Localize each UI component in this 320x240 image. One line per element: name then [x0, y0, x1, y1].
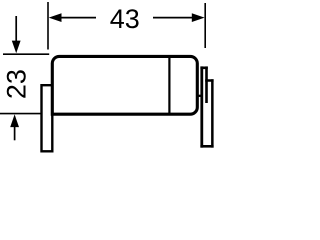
right tab outer edge L3 — [211, 79, 214, 147]
dimension 43: right extension line — [204, 3, 206, 48]
dimension 43: left arrowhead — [49, 13, 62, 22]
dimension 23: bottom extension tick — [0, 113, 41, 115]
dimension 43: left dimension line — [54, 17, 96, 19]
dimension 23: top arrowhead (pointing down) — [12, 41, 21, 54]
svg-text:43: 43 — [110, 4, 140, 34]
right tab step bar — [205, 79, 213, 82]
dimension 23: top extension tick — [3, 53, 49, 55]
cathode band — [168, 57, 170, 114]
right tab top bar — [200, 67, 207, 70]
right tab bottom bar — [200, 145, 213, 148]
dimension 23: bottom arrow shaft — [14, 125, 16, 140]
left solder tab — [42, 85, 53, 151]
svg-text:23: 23 — [1, 69, 31, 99]
component body (cell outline, rounded except bottom-left) — [52, 56, 197, 114]
right tab inner edge L1 — [200, 66, 203, 147]
dimension 43: right dimension line — [153, 17, 199, 19]
dimension 23: top arrow shaft — [15, 16, 17, 43]
right tab middle leg L2 — [205, 66, 208, 103]
dimension 43: left extension line — [47, 2, 49, 50]
dimension 23: bottom arrowhead (pointing up) — [10, 114, 19, 127]
dimension 43: right arrowhead — [192, 13, 205, 22]
right tab weld crossbar to body — [197, 95, 203, 97]
